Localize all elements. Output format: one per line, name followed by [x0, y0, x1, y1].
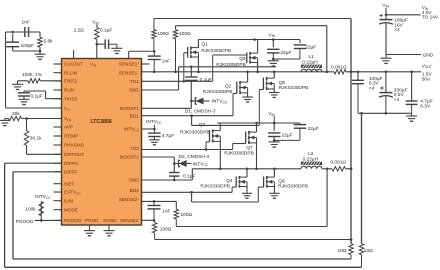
wire D2 cathode — [174, 163, 178, 165]
svg-text:1.5V: 1.5V — [422, 71, 433, 77]
wire rail2 down to sense resistor — [326, 26, 328, 72]
wire VFB gnd leg — [5, 118, 9, 120]
svg-text:D1, CMDSH-3: D1, CMDSH-3 — [185, 109, 216, 115]
resistor 10 Ohm (DIFFN) — [359, 244, 363, 255]
wire Q5 gate lead — [213, 54, 247, 56]
wire to 4.7uF — [411, 72, 413, 101]
resistor 100 Ohm (SENSE1 filter A) — [152, 30, 156, 39]
svg-text:1nF: 1nF — [162, 208, 170, 214]
node VOUT ph1 — [350, 70, 353, 73]
wire BG2 jog — [191, 192, 193, 202]
svg-text:INTVCC: INTVCC — [35, 194, 51, 200]
wire BG1 — [142, 115, 234, 117]
wire VOUT rail — [351, 71, 421, 73]
capacitor 0.1uF (soft-start) — [23, 91, 25, 93]
wire VIN to 2.2ohm — [96, 25, 98, 28]
svg-text:RJK0305DPB: RJK0305DPB — [224, 151, 254, 157]
svg-text:BG2: BG2 — [130, 188, 140, 193]
svg-text:ISET: ISET — [64, 181, 75, 186]
resistor 0.001 Ohm (Rs1) — [334, 70, 346, 74]
svg-text:22µF: 22µF — [282, 133, 293, 139]
svg-text:10Ω: 10Ω — [338, 248, 347, 254]
wire BG2 — [142, 191, 233, 193]
resistor 30.1k — [24, 131, 28, 146]
svg-text:Q2: Q2 — [225, 84, 232, 90]
ground (VIN cap) — [381, 57, 392, 59]
wire BOOST1 row — [142, 107, 192, 109]
svg-text:D2, CMDSH-3: D2, CMDSH-3 — [179, 154, 210, 160]
wire SENSE2+ row — [142, 200, 177, 202]
svg-text:RJK0305DPB: RJK0305DPB — [180, 129, 210, 135]
svg-text:VOUT: VOUT — [422, 63, 432, 69]
node VFB — [25, 117, 28, 120]
svg-text:100Ω: 100Ω — [181, 212, 193, 218]
wire SENSE2+ down to 100 Ohm — [175, 201, 177, 209]
inductor L1 0.22uH — [301, 65, 322, 68]
svg-text:BG1: BG1 — [130, 114, 140, 119]
inductor L2 0.22uH — [301, 162, 322, 165]
wire Q8 drain — [273, 169, 275, 177]
svg-text:6.3V: 6.3V — [420, 103, 431, 109]
wire VFB to 30.1k — [26, 119, 28, 131]
op-amp/controller U1 LTC3856 body — [62, 59, 142, 226]
svg-text:AVP: AVP — [64, 125, 73, 130]
svg-text:0.22µH: 0.22µH — [303, 157, 319, 163]
ground (SGND) — [104, 230, 115, 232]
ground (output caps) — [406, 115, 417, 117]
wire Q5 drain — [257, 40, 259, 54]
wire DIFFOUT — [27, 153, 62, 155]
wire Q7 gate lead — [233, 143, 246, 145]
svg-text:SENSE2−: SENSE2− — [120, 218, 141, 223]
wire sense2- to VOUT tap — [155, 239, 351, 241]
svg-text:DIFFOUT: DIFFOUT — [64, 152, 84, 157]
svg-text:PLLIN: PLLIN — [64, 70, 77, 75]
node D2 cathode — [173, 162, 176, 165]
capacitor 22uF (ph1 B) — [294, 44, 306, 46]
svg-text:SGND: SGND — [103, 218, 117, 223]
svg-text:1nF: 1nF — [162, 58, 170, 64]
resistor 0.001 Ohm (Rs2) — [332, 167, 346, 171]
ground (Q2 source) — [242, 96, 252, 98]
svg-text:Q7: Q7 — [246, 145, 253, 151]
svg-text:RJK0330DPB: RJK0330DPB — [203, 89, 233, 95]
ground (INTVCC cap) — [149, 139, 159, 141]
wire ITH comp left vertical — [5, 32, 7, 108]
svg-text:SENSE1−: SENSE1− — [119, 70, 140, 75]
wire SW1 upper bus — [179, 66, 276, 68]
svg-text:100Ω: 100Ω — [160, 227, 172, 233]
resistor 10 Ohm (DIFFP) — [349, 244, 353, 255]
node Rs2 left — [326, 168, 329, 171]
wire to 22uF A — [272, 40, 274, 48]
svg-text:BOOST2: BOOST2 — [120, 155, 139, 160]
svg-text:30.1k: 30.1k — [30, 136, 42, 142]
wire BG1 loop to Q6 gate — [192, 124, 260, 126]
svg-text:BOOST1: BOOST1 — [120, 106, 139, 111]
junction 100ohm — [174, 71, 177, 74]
capacitor 22uF (ph2 B) — [294, 124, 306, 126]
svg-text:50A: 50A — [422, 77, 431, 83]
resistor 100k 1% — [28, 79, 40, 83]
svg-text:VIN: VIN — [92, 20, 99, 26]
wire boost cap to BOOST1 — [190, 80, 192, 108]
wire sense2+ filter to Rs2 left — [176, 226, 327, 228]
svg-text:100k, 1%: 100k, 1% — [22, 72, 43, 78]
svg-text:5.6k: 5.6k — [44, 39, 54, 45]
wire SW1 pin riser — [178, 67, 180, 90]
wire FREQ left — [18, 80, 29, 82]
wire Q2 drain — [247, 72, 249, 82]
wire boost2 vertical — [173, 157, 175, 173]
wire boost cap top lead — [190, 67, 192, 77]
svg-text:22µF: 22µF — [280, 50, 291, 56]
svg-text:SW1: SW1 — [129, 88, 140, 93]
ground (TK/SS cap) — [19, 98, 30, 100]
svg-text:4.7µF: 4.7µF — [162, 133, 174, 139]
wire Q8 gate lead — [258, 186, 263, 188]
capacitor 0.1uF (VIN filter) — [104, 39, 106, 49]
svg-text:INTVCC: INTVCC — [146, 119, 162, 125]
svg-text:L1: L1 — [309, 54, 315, 60]
wire SW2 bus — [192, 168, 301, 170]
capacitor 100uF 6.3V x4 — [352, 79, 364, 81]
capacitor 1nF (SENSE1) — [148, 55, 161, 57]
wire Q7 source — [256, 143, 258, 169]
svg-text:Q8: Q8 — [278, 178, 285, 184]
svg-text:22µF: 22µF — [308, 126, 319, 132]
wire SW2 pin riser — [191, 169, 193, 180]
capacitor 0.1uF (boost2) — [169, 172, 179, 174]
svg-text:DIFFN: DIFFN — [64, 161, 78, 166]
svg-text:Q3: Q3 — [199, 122, 206, 128]
node PGOOD — [40, 219, 43, 222]
wire Q1 drain — [197, 40, 199, 48]
wire to 22uF B — [299, 40, 301, 44]
ground (Q8 source) — [269, 192, 279, 194]
resistor 2.2 Ohm — [95, 27, 99, 39]
wire DIFFP bottom run — [13, 258, 351, 260]
capacitor 0.1uF (boost1) — [185, 76, 197, 78]
svg-text:×4: ×4 — [394, 97, 400, 103]
wire Q4 gate lead — [232, 186, 236, 188]
wire sense rail 2 — [176, 25, 327, 27]
junction 1nF — [153, 71, 156, 74]
svg-text:0.001Ω: 0.001Ω — [331, 65, 347, 71]
svg-text:VIN: VIN — [382, 3, 389, 9]
ground (ITH comp) — [35, 53, 46, 55]
svg-text:0.22µH: 0.22µH — [302, 60, 318, 66]
svg-text:VIN: VIN — [269, 32, 276, 38]
diode D1 CMDSH-3 — [195, 98, 197, 104]
wire PGND stub — [89, 225, 91, 231]
svg-text:PGOOD: PGOOD — [16, 219, 34, 225]
svg-text:100Ω: 100Ω — [179, 31, 191, 37]
resistor 100k pull-up — [39, 202, 43, 216]
transistor Q2 RJK0330DPB — [236, 82, 238, 94]
svg-text:0.1µF: 0.1µF — [31, 93, 43, 99]
svg-text:PGOOD: PGOOD — [64, 218, 82, 223]
wire DIFFN bottom run — [5, 266, 362, 268]
wire Q3 drain — [219, 123, 221, 131]
svg-text:INTVCC: INTVCC — [193, 161, 209, 167]
ground (FREQ) — [12, 83, 23, 85]
wire DIFFN — [5, 162, 62, 164]
svg-text:ITH: ITH — [64, 106, 69, 112]
svg-text:Q4: Q4 — [226, 178, 233, 184]
wire 30.1k to DIFFOUT — [26, 145, 28, 154]
wire to ground — [39, 51, 41, 54]
svg-text:INTVCC: INTVCC — [124, 127, 140, 133]
svg-text:TO 14V: TO 14V — [422, 15, 439, 21]
transistor Q5 RJK0305DPB — [246, 53, 248, 64]
wire VIN rail phase2 — [217, 122, 300, 124]
wire Rs1 to VOUT node — [346, 71, 356, 73]
capacitor 180uF 16V x2 polarized — [380, 19, 393, 21]
svg-text:0.1µF: 0.1µF — [200, 77, 212, 83]
node VIN filter — [96, 43, 99, 46]
transistor Q6 RJK0330DPB — [262, 78, 264, 90]
svg-text:CLKOUT: CLKOUT — [64, 62, 83, 67]
resistor 100 Ohm (SENSE2 B) — [152, 223, 156, 233]
node Q7 drain — [255, 122, 258, 125]
capacitor 22uF (ph1 A) — [267, 48, 279, 50]
wire to VIN spec label — [386, 14, 421, 16]
wire VIN terminal — [385, 8, 387, 19]
wire to 22uF B ph2 — [299, 123, 301, 125]
node VOUT sense tap — [350, 238, 353, 241]
plus (180uF) — [380, 15, 383, 17]
transistor Q4 RJK0330DPB — [235, 177, 237, 188]
ground (ph1 input caps) — [268, 60, 279, 62]
svg-text:DIFFP: DIFFP — [64, 169, 78, 174]
svg-text:RJK0330DPB: RJK0330DPB — [279, 85, 309, 91]
svg-text:ITEMP: ITEMP — [64, 134, 78, 139]
wire Q2 source — [247, 93, 249, 97]
svg-text:MODE: MODE — [64, 207, 78, 212]
node VIN ph1 — [272, 38, 275, 41]
wire SGND stub — [108, 225, 110, 231]
wire ITH pin to comp network — [6, 107, 62, 109]
wire GND sense vertical — [361, 113, 363, 243]
svg-text:GND: GND — [423, 53, 434, 59]
capacitor 100pF — [12, 34, 14, 42]
wire DIFFN vertical — [4, 163, 6, 267]
wire TKSS up — [45, 91, 47, 99]
svg-text:×2: ×2 — [394, 27, 400, 33]
svg-text:Q5: Q5 — [239, 56, 246, 62]
ground (VFB 20k) — [0, 119, 10, 121]
wire Q6 drain — [273, 72, 275, 78]
top stub (unused pin) — [73, 50, 75, 59]
wire TG1 — [142, 80, 213, 82]
wire DIFFP vertical — [12, 172, 14, 259]
svg-text:RJK0305DPB: RJK0305DPB — [201, 48, 231, 54]
ground (ph2 input caps) — [269, 141, 280, 143]
capacitor 1nF (ITH zero) — [24, 27, 26, 37]
node comp — [11, 31, 14, 34]
transistor Q1 RJK0305DPB — [187, 47, 189, 58]
wire to 330uF — [385, 72, 387, 92]
wire BG1 jog — [191, 116, 193, 126]
wire to 100uF — [357, 72, 359, 81]
wire TG2 — [142, 149, 233, 151]
wire SENSE1-/SW node line — [142, 71, 335, 73]
wire Q4 drain — [246, 169, 248, 177]
SENSE1+ pin stub — [142, 63, 150, 65]
wire Q3 source — [219, 141, 221, 168]
svg-text:SENSE1+: SENSE1+ — [119, 61, 140, 66]
wire Q8 source — [273, 187, 275, 194]
wire to 0.1uF — [97, 43, 105, 45]
svg-text:LTC3856: LTC3856 — [90, 119, 111, 125]
svg-text:Q1: Q1 — [201, 41, 208, 47]
svg-text:RJK0330DPB: RJK0330DPB — [200, 184, 230, 190]
wire TK/SS — [46, 98, 62, 100]
svg-text:TK/SS: TK/SS — [64, 96, 78, 101]
node SENSE1+ filter — [153, 50, 156, 53]
wire GND label — [386, 54, 421, 56]
svg-text:VFB: VFB — [64, 116, 71, 122]
wire BG2 loop to Q8 gate — [192, 201, 259, 203]
plus (330uF) — [380, 87, 383, 89]
wire sense rail 1 (top) — [154, 18, 351, 20]
svg-text:RJK0330DPB: RJK0330DPB — [278, 184, 308, 190]
capacitor 4.7uF (INTVCC) — [148, 132, 160, 134]
wire output gnd rail — [358, 112, 412, 114]
svg-text:ILIM: ILIM — [64, 198, 73, 203]
wire SENSE2- row — [142, 219, 155, 221]
diode D2 CMDSH-3 — [179, 160, 181, 166]
svg-text:FREQ: FREQ — [64, 79, 77, 84]
node D1 cathode — [190, 100, 193, 103]
transistor Q8 RJK0330DPB — [263, 177, 265, 188]
svg-text:L2: L2 — [308, 151, 314, 157]
wire SW1 row — [142, 89, 179, 91]
svg-text:TG2: TG2 — [130, 146, 140, 151]
svg-text:10Ω: 10Ω — [364, 248, 373, 254]
transistor Q7 RJK0305DPB — [245, 132, 247, 144]
svg-text:INTVCC: INTVCC — [212, 99, 228, 105]
wire D1 cathode — [191, 100, 195, 102]
ground (PGND) — [84, 230, 95, 232]
wire VIN rail phase1 — [198, 39, 300, 41]
svg-text:20k: 20k — [12, 111, 20, 117]
svg-text:100pF: 100pF — [21, 43, 35, 49]
wire comp bottom — [13, 50, 40, 52]
wire SENSE1+ top entry — [128, 51, 130, 58]
wire Q5 source — [257, 63, 259, 72]
wire boost2 cap to SW2 row — [173, 176, 175, 180]
wire to ground — [17, 81, 19, 85]
wire Q6 gate lead — [259, 89, 263, 91]
svg-text:100Ω: 100Ω — [157, 31, 169, 37]
svg-text:×4: ×4 — [369, 85, 375, 91]
wire Q2 gate lead — [233, 93, 237, 95]
wire SW2 row — [142, 179, 193, 181]
svg-text:PGND: PGND — [85, 218, 99, 223]
wire Q3 gate lead — [206, 141, 210, 143]
node Rs1 left — [326, 71, 329, 74]
capacitor 330uF 2.5V x4 polarized — [379, 92, 392, 94]
node VOUT ph2 — [350, 167, 353, 170]
wire comp top — [6, 31, 41, 33]
wire 2.2ohm to IC VIN pin — [96, 39, 98, 58]
wire BOOST2 row — [142, 156, 175, 158]
wire INTVCC — [142, 128, 155, 130]
svg-text:0.001Ω: 0.001Ω — [330, 159, 346, 165]
svg-text:0.1µF: 0.1µF — [183, 174, 195, 180]
wire PGOOD — [35, 219, 62, 221]
svg-text:RUN: RUN — [64, 88, 74, 93]
wire Q1 source — [197, 57, 199, 72]
svg-text:PHASMD: PHASMD — [64, 143, 85, 148]
resistor 100 Ohm (SENSE2 A) — [174, 209, 178, 219]
transistor Q3 RJK0305DPB — [209, 130, 211, 142]
wire to 22uF A ph2 — [273, 123, 275, 131]
svg-text:SW2: SW2 — [129, 178, 140, 183]
wire D1 anode — [204, 100, 210, 102]
svg-text:SENSE2+: SENSE2+ — [119, 197, 140, 202]
svg-text:EXTVCC: EXTVCC — [64, 190, 81, 196]
wire Q4 source — [246, 187, 248, 194]
svg-text:TG1: TG1 — [130, 79, 140, 84]
ground (VIN filter cap) — [111, 47, 122, 49]
wire 20k to VFB — [22, 118, 62, 120]
svg-text:22µF: 22µF — [305, 44, 316, 50]
svg-text:100k: 100k — [25, 206, 36, 212]
wire Q6 source — [273, 89, 275, 93]
wire VOUT vertical — [350, 19, 352, 244]
svg-text:2.2Ω: 2.2Ω — [74, 28, 85, 34]
wire Rs2 to VOUT — [346, 168, 352, 170]
capacitor 1nF (SENSE2) — [148, 205, 161, 207]
resistor 100 Ohm (SENSE1 filter B) — [173, 30, 177, 39]
capacitor 4.7uF 6.3V — [406, 100, 418, 102]
wire D2 anode — [187, 163, 192, 165]
wire 180uF to gnd — [385, 23, 387, 54]
wire 100k to FREQ pin — [40, 80, 61, 82]
wire L2 to Rs2 — [322, 168, 332, 170]
resistor 20k — [8, 116, 21, 120]
wire Rs2 left tap down — [326, 169, 328, 227]
svg-text:VIN: VIN — [90, 62, 96, 68]
resistor 5.6k — [39, 32, 41, 37]
capacitor 22uF (ph2 A) — [268, 132, 280, 134]
node Q5 drain — [253, 38, 256, 41]
wire Q7 drain — [256, 123, 258, 132]
svg-text:0.1µF: 0.1µF — [100, 28, 112, 34]
ground (Q6 source) — [269, 92, 279, 94]
svg-text:1nF: 1nF — [22, 20, 30, 26]
left pin stubs — [54, 63, 62, 65]
wire Q1 gate lead — [184, 52, 188, 54]
wire DIFFP — [13, 171, 62, 173]
ground (Q4 source) — [242, 192, 252, 194]
wire to soft-start cap — [24, 90, 46, 92]
